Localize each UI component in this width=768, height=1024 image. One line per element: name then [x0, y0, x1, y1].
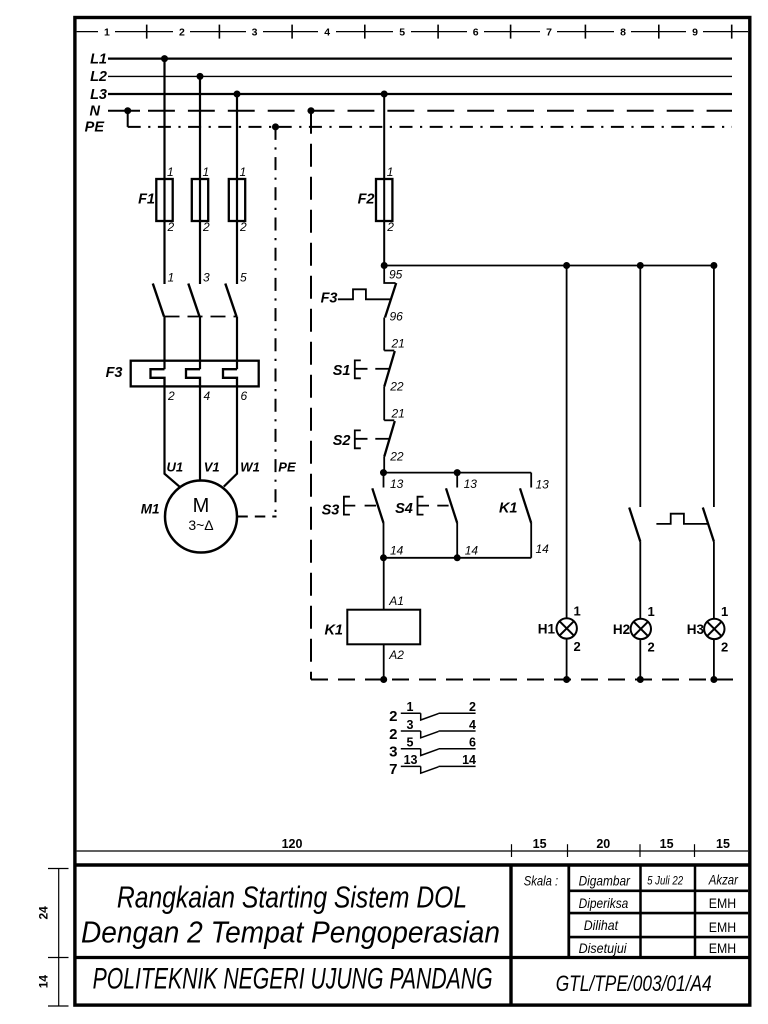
svg-text:8: 8 [620, 26, 626, 38]
svg-text:14: 14 [390, 544, 404, 558]
node L2 junction [197, 73, 204, 80]
svg-text:2: 2 [179, 26, 185, 38]
left dimension ticks [48, 869, 69, 1007]
wire H3 column lower [713, 542, 715, 619]
svg-text:13: 13 [536, 478, 550, 492]
S2 NC contact blade [384, 421, 395, 457]
svg-text:L1: L1 [90, 51, 107, 67]
svg-text:Rangkaian Starting Sistem DOL: Rangkaian Starting Sistem DOL [117, 880, 467, 915]
svg-text:Disetujui: Disetujui [579, 940, 628, 956]
svg-text:7: 7 [389, 761, 397, 778]
S3 top stub [383, 473, 385, 488]
wire S2 to junction [383, 457, 385, 473]
title block vertical divider [509, 865, 512, 1005]
svg-text:S3: S3 [322, 503, 340, 519]
svg-text:120: 120 [282, 837, 303, 851]
svg-text:W1: W1 [240, 460, 259, 475]
wire H2 to N rail [639, 639, 641, 679]
svg-text:A2: A2 [388, 648, 404, 662]
svg-text:F3: F3 [106, 365, 123, 381]
svg-text:4: 4 [204, 389, 211, 403]
wire F3 to S1 [383, 318, 385, 351]
wire pole2 to overload [199, 317, 201, 370]
wire rail to F3 contact [384, 266, 395, 284]
N-PE bond wire [127, 111, 129, 127]
contact cross-reference row 1 (1-2) [389, 700, 476, 725]
wire PE drop (dash-dot) [275, 127, 277, 517]
control top rail [384, 265, 714, 267]
dimension ticks [512, 844, 695, 857]
svg-text:15: 15 [660, 837, 674, 851]
F3 trip NO contact (H3) blade [703, 508, 714, 542]
node H2-N [637, 676, 644, 683]
svg-text:13: 13 [390, 477, 404, 491]
svg-text:1: 1 [648, 604, 655, 619]
svg-text:M1: M1 [141, 502, 160, 517]
overload relay F3 box [131, 361, 259, 387]
K1 aux bottom wire [530, 523, 532, 558]
node S3 top [380, 469, 387, 476]
table row line 2 [569, 912, 748, 915]
svg-text:2: 2 [574, 639, 581, 654]
svg-text:3: 3 [407, 718, 414, 732]
lamp H3 [704, 619, 724, 639]
node L3 junction 1 [234, 91, 241, 98]
wire H2 column upper [639, 266, 641, 508]
svg-text:13: 13 [404, 753, 418, 767]
svg-text:7: 7 [546, 26, 552, 38]
S4 actuator link dash [437, 505, 448, 507]
bottom N rail (dashed) [311, 679, 733, 681]
wire U1 to motor [165, 386, 180, 486]
svg-text:Dilihat: Dilihat [584, 917, 619, 933]
parallel branch bottom rail [384, 557, 532, 559]
svg-text:6: 6 [469, 736, 476, 750]
parallel branch top rail [384, 472, 532, 474]
wire H1 to N rail [566, 639, 568, 680]
heater element phase 2 [186, 369, 200, 386]
F3 trip linkage to H3 contact [656, 514, 708, 524]
svg-text:2: 2 [721, 639, 728, 654]
svg-text:V1: V1 [204, 460, 220, 475]
node N bond dot [124, 107, 131, 114]
svg-text:22: 22 [389, 380, 404, 394]
wire V1 to motor [199, 386, 201, 481]
svg-text:14: 14 [37, 975, 51, 989]
line L1 [108, 57, 732, 59]
table row line 1 [569, 889, 748, 892]
svg-text:1: 1 [387, 165, 394, 179]
node L3 junction 2 (F2) [381, 91, 388, 98]
svg-text:14: 14 [465, 544, 479, 558]
contactor K1 main contact pole 1 [153, 284, 164, 317]
svg-text:F3: F3 [321, 291, 338, 307]
svg-text:S4: S4 [395, 501, 413, 517]
S3 bottom wire [383, 523, 385, 558]
motor M1 circle [165, 481, 237, 553]
wire motor to PE (dashed) [237, 516, 276, 518]
svg-text:2: 2 [239, 220, 247, 234]
svg-text:Diperiksa: Diperiksa [579, 895, 629, 911]
svg-text:H3: H3 [687, 622, 705, 637]
wire pole1 to overload [163, 317, 165, 370]
svg-text:4: 4 [324, 26, 330, 38]
svg-text:EMH: EMH [709, 941, 736, 956]
wire N drop (dashed) [310, 111, 312, 680]
svg-text:K1: K1 [499, 501, 518, 517]
svg-text:2: 2 [469, 700, 476, 714]
S3 actuator link dash [365, 505, 376, 507]
wire S2 jog [384, 419, 394, 421]
node H1-N [563, 676, 570, 683]
svg-text:1: 1 [240, 165, 247, 179]
wire H3 column upper [713, 266, 715, 508]
svg-text:15: 15 [716, 837, 730, 851]
node S4 bottom [454, 554, 461, 561]
heater element phase 1 [151, 369, 165, 386]
svg-text:GTL/TPE/003/01/A4: GTL/TPE/003/01/A4 [556, 971, 712, 996]
wire pole3 to overload [236, 317, 238, 370]
svg-text:A1: A1 [388, 594, 404, 608]
top ruler line [77, 31, 748, 33]
wire H3 to N rail [713, 639, 715, 679]
svg-text:L2: L2 [90, 69, 107, 85]
node coil-N [380, 676, 387, 683]
ruler numbers 1-9 [104, 26, 698, 38]
svg-text:U1: U1 [167, 460, 184, 475]
node L1 junction [161, 55, 168, 62]
contactor K1 main contact pole 3 [225, 284, 236, 317]
svg-text:2: 2 [167, 220, 175, 234]
svg-text:L3: L3 [90, 87, 107, 103]
S4 NO contact blade [446, 488, 457, 523]
line N (dashed) [108, 110, 140, 112]
S4 top stub [456, 473, 458, 488]
wire S1 to S2 [383, 387, 385, 421]
svg-text:F1: F1 [138, 192, 155, 208]
title block top border [75, 863, 750, 866]
svg-text:2: 2 [386, 220, 394, 234]
svg-text:2: 2 [389, 726, 397, 743]
node S4 top [454, 469, 461, 476]
coil K1 [347, 610, 420, 645]
svg-text:1: 1 [721, 604, 728, 619]
svg-text:24: 24 [37, 906, 51, 920]
contact cross-reference row 2 (3-4) [389, 718, 476, 743]
S1 pushbutton actuator [355, 360, 368, 378]
node rail-H2 [637, 262, 644, 269]
svg-text:H1: H1 [538, 621, 556, 636]
svg-text:K1: K1 [324, 623, 343, 639]
svg-text:Digambar: Digambar [579, 873, 632, 889]
lamp H1 [557, 618, 577, 638]
svg-text:N: N [90, 104, 101, 120]
wire S1 jog [384, 350, 394, 352]
mechanical link (dashed) [165, 316, 238, 318]
K1 aux NO contact blade [520, 488, 531, 523]
F3 trip linkage with bump [338, 289, 390, 299]
svg-text:22: 22 [389, 450, 404, 464]
K1 aux top stub [530, 473, 532, 488]
svg-text:1: 1 [168, 271, 175, 285]
svg-text:EMH: EMH [709, 896, 736, 911]
wire H1 column [566, 266, 568, 619]
line L2 [108, 75, 732, 77]
fuse F1 phase 1 [156, 179, 172, 221]
svg-text:14: 14 [536, 542, 550, 556]
svg-text:1: 1 [203, 165, 210, 179]
svg-text:EMH: EMH [709, 920, 736, 935]
svg-text:14: 14 [462, 753, 476, 767]
lamp H2 [631, 619, 651, 639]
contact cross-reference row 4 (13-14) [389, 753, 476, 778]
wire coil to N rail [383, 644, 385, 679]
svg-text:PE: PE [278, 460, 296, 475]
fuse F1 phase 2 [192, 179, 208, 221]
svg-text:1: 1 [167, 165, 174, 179]
svg-text:2: 2 [648, 639, 655, 654]
svg-text:3~Δ: 3~Δ [188, 517, 213, 533]
left dimension line [58, 869, 60, 1007]
fuse F1 phase 3 [229, 179, 245, 221]
svg-text:POLITEKNIK NEGERI UJUNG PANDAN: POLITEKNIK NEGERI UJUNG PANDANG [93, 963, 493, 996]
fuse F2 [376, 179, 392, 221]
S4 pushbutton actuator [418, 497, 430, 515]
svg-text:5: 5 [407, 736, 414, 750]
svg-text:PE: PE [85, 120, 106, 136]
svg-text:F2: F2 [358, 192, 375, 208]
svg-text:6: 6 [473, 26, 479, 38]
svg-text:20: 20 [596, 837, 610, 851]
svg-text:5: 5 [399, 26, 405, 38]
title block middle divider [75, 956, 750, 959]
svg-text:1: 1 [574, 604, 581, 619]
svg-text:H2: H2 [613, 622, 630, 637]
table column line 3 [694, 865, 697, 958]
svg-text:Skala :: Skala : [524, 873, 558, 889]
S3 pushbutton actuator [344, 497, 355, 515]
svg-text:S2: S2 [333, 433, 351, 449]
svg-text:9: 9 [692, 26, 698, 38]
dimension line above title block [77, 850, 748, 852]
node rail-H1 [563, 262, 570, 269]
svg-text:M: M [193, 495, 210, 517]
S1 actuator link dash [375, 368, 388, 370]
svg-text:2: 2 [167, 389, 175, 403]
wire phase1 L1 to contact [163, 59, 165, 284]
svg-text:Akzar: Akzar [708, 872, 739, 888]
wire F2 column from L3 [383, 94, 385, 266]
contact cross-reference row 3 (5-6) [389, 736, 476, 761]
K1 aux NO contact (H2) blade [629, 508, 640, 542]
svg-text:95: 95 [389, 268, 403, 282]
node PE junction (drop) [272, 123, 279, 130]
contactor K1 main contact pole 2 [188, 284, 199, 317]
line L3 [108, 93, 732, 95]
table column line 2 [639, 865, 642, 958]
S3 NO contact blade [372, 488, 383, 523]
svg-text:96: 96 [390, 310, 404, 324]
svg-text:1: 1 [104, 26, 110, 38]
svg-text:13: 13 [464, 477, 478, 491]
svg-text:15: 15 [533, 837, 547, 851]
node rail-F2 [381, 262, 388, 269]
svg-text:5: 5 [240, 271, 247, 285]
svg-text:6: 6 [241, 389, 248, 403]
svg-text:S1: S1 [333, 363, 351, 379]
line PE (dash-dot) [128, 126, 732, 128]
S1 NC contact blade [384, 351, 395, 387]
wire to K1 coil [383, 558, 385, 610]
S2 pushbutton actuator [355, 430, 368, 448]
wire H2 column lower [639, 542, 641, 619]
svg-text:3: 3 [252, 26, 258, 38]
svg-text:21: 21 [391, 337, 405, 351]
wire phase3 L3 to contact [236, 94, 238, 284]
ruler ticks [147, 25, 732, 39]
svg-text:5 Juli 22: 5 Juli 22 [647, 874, 683, 888]
table row line 3 [569, 936, 748, 939]
node H3-N [710, 676, 717, 683]
svg-text:3: 3 [203, 271, 210, 285]
svg-text:21: 21 [391, 407, 405, 421]
wire W1 to motor [224, 386, 237, 486]
svg-text:Dengan 2 Tempat Pengoperasian: Dengan 2 Tempat Pengoperasian [81, 915, 500, 950]
wire phase2 L2 to contact [199, 76, 201, 284]
svg-text:1: 1 [407, 700, 414, 714]
heater element phase 3 [223, 369, 237, 386]
F3 NC contact blade [385, 283, 396, 318]
node S3 bottom [380, 554, 387, 561]
node rail-H3 [710, 262, 717, 269]
S4 bottom wire [456, 523, 458, 558]
S2 actuator link dash [375, 438, 388, 440]
svg-text:3: 3 [389, 744, 397, 761]
svg-text:2: 2 [389, 708, 397, 725]
svg-text:4: 4 [469, 718, 476, 732]
node N junction (drop) [308, 107, 315, 114]
svg-text:2: 2 [202, 220, 210, 234]
table column line 1 [567, 865, 570, 958]
